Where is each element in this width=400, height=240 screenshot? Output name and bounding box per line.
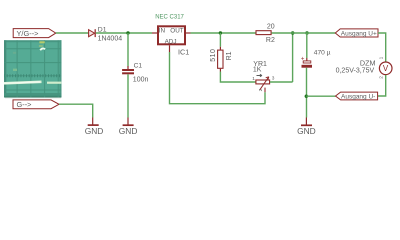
svg-text:1: 1 [379,56,385,59]
diode D1 [89,26,123,42]
svg-text:G-->: G--> [17,100,32,109]
svg-text:100n: 100n [133,76,149,83]
node junction [305,31,308,34]
wire [127,33,129,66]
node junction R1 [219,31,222,34]
wire [219,33,221,47]
node Ausgang U- flag [336,92,378,101]
svg-text:R2: R2 [266,37,275,44]
svg-text:R1: R1 [226,51,233,60]
svg-text:V: V [383,64,389,73]
svg-text:GND: GND [85,126,104,136]
svg-text:2: 2 [258,88,264,91]
ground [85,118,104,136]
pin stub OUT [186,32,191,34]
svg-text:OUT: OUT [170,27,183,34]
voltmeter DZM [336,56,392,78]
wire [96,32,152,34]
node G flag [13,100,59,109]
svg-text:NEC C317: NEC C317 [155,15,184,21]
svg-text:2: 2 [378,76,384,79]
node Y/G flag [13,29,56,38]
regulator IC1 [155,15,189,57]
svg-text:510: 510 [210,49,217,62]
svg-text:1K: 1K [253,66,262,73]
svg-text:GND: GND [119,126,138,136]
capacitor C1 [122,63,148,84]
wire [56,32,89,34]
scope image [4,40,62,98]
svg-text:20: 20 [267,24,275,31]
ground [297,118,316,136]
pin stub R1 bottom [219,69,221,72]
svg-text:1: 1 [252,76,255,82]
svg-text:ADJ: ADJ [165,38,177,45]
svg-text:GND: GND [297,126,316,136]
svg-text:0,25V-3,75V: 0,25V-3,75V [336,68,375,75]
wire [306,68,308,118]
svg-text:DZM: DZM [360,58,376,67]
resistor R1 [210,49,233,69]
wire [127,74,129,117]
trimmer YR1 [252,61,274,93]
svg-text:IN: IN [159,27,166,34]
svg-text:C1: C1 [134,63,143,70]
wire [306,95,335,97]
node junction C1 [126,31,129,34]
wire [59,104,93,117]
pin stub R1 top [219,47,221,50]
wire [378,75,386,96]
svg-text:470 µ: 470 µ [314,50,331,57]
resistor R2 [256,24,275,45]
wire [191,32,256,34]
wire [272,32,336,34]
pin stub IN [152,32,157,34]
node Ausgang U+ flag [335,29,378,37]
ground [119,118,138,136]
svg-text:IC1: IC1 [178,48,189,57]
wire [378,33,386,62]
wire [292,33,294,82]
node junction [305,95,308,98]
svg-text:Ausgang U-: Ausgang U- [341,94,375,101]
svg-text:Y/G-->: Y/G--> [17,29,39,38]
svg-text:3: 3 [272,76,275,82]
capacitor C2 470u [301,33,331,68]
wire ADJ loop [170,52,266,104]
wire [270,81,293,83]
svg-text:1N4004: 1N4004 [98,36,123,43]
node junction [291,31,294,34]
svg-text:Ausgang U+: Ausgang U+ [341,30,377,37]
wire [220,72,255,83]
pin stub ADJ [169,45,171,52]
